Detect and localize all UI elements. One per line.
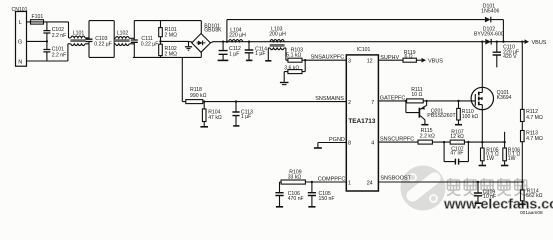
bridge rectifier BD101: [192, 21, 211, 58]
wire G row: [27, 40, 48, 42]
wire SNSMAINS riser: [182, 57, 186, 101]
svg-text:47 nF: 47 nF: [450, 151, 463, 157]
svg-text:SNSAUXPFC: SNSAUXPFC: [311, 55, 345, 61]
junction bypass: [226, 41, 228, 43]
svg-text:12 kΩ: 12 kΩ: [450, 134, 464, 140]
resistor R112: [521, 109, 525, 121]
capacitor C110: [493, 42, 501, 68]
inductor L103 (PFC choke primary): [270, 40, 285, 47]
svg-text:GBU8K: GBU8K: [204, 28, 222, 34]
node VBUS arrow: [525, 39, 530, 44]
capacitor C103: [86, 21, 93, 58]
connector CN101: [16, 12, 27, 67]
capacitor C105: [308, 182, 316, 206]
svg-text:L102: L102: [117, 30, 129, 36]
wire VBUS divider column: [521, 42, 523, 190]
junction bypass return: [502, 41, 504, 43]
svg-text:1 µF: 1 µF: [255, 51, 265, 57]
svg-text:47 kΩ: 47 kΩ: [208, 115, 222, 121]
junction C113: [235, 100, 237, 102]
wire bottom rail cell2: [133, 56, 202, 58]
svg-text:990 kΩ: 990 kΩ: [190, 93, 207, 99]
diode D102: [485, 39, 491, 45]
ground (R106): [501, 165, 508, 167]
ground (R114): [519, 203, 526, 205]
svg-text:562 kΩ: 562 kΩ: [526, 193, 543, 199]
svg-text:N: N: [18, 59, 22, 65]
svg-text:1N5406: 1N5406: [481, 9, 499, 15]
ground (aux winding): [265, 60, 271, 62]
svg-text:24: 24: [367, 180, 373, 186]
wire N row: [27, 44, 71, 61]
ground (PGND): [314, 147, 322, 149]
resistor R116 3.6k: [284, 60, 305, 82]
svg-text:SUPHV: SUPHV: [380, 55, 399, 61]
junction R106: [503, 141, 505, 143]
resistor R103: [288, 58, 346, 62]
svg-text:1 µF: 1 µF: [229, 52, 239, 58]
svg-text:2: 2: [348, 100, 351, 106]
resistor R119: [403, 58, 422, 62]
svg-text:2 MΩ: 2 MΩ: [165, 51, 178, 57]
wire GATEPFC pin 7: [378, 100, 471, 102]
junction drain on main bus: [481, 41, 483, 43]
capacitor C114: [245, 42, 254, 60]
ground (C106): [276, 206, 283, 208]
capacitor C112: [219, 42, 228, 60]
svg-text:PBSS5260T: PBSS5260T: [427, 113, 456, 119]
junction C107 right: [467, 141, 469, 143]
fuse F101: [31, 20, 44, 24]
ground (R116): [280, 83, 289, 85]
svg-text:10 Ω: 10 Ω: [411, 92, 422, 98]
capacitor C106: [275, 182, 283, 206]
junction C109: [477, 181, 479, 183]
svg-text:12: 12: [367, 58, 373, 64]
resistor R110: [457, 101, 461, 124]
svg-text:VBUS: VBUS: [532, 40, 547, 46]
ground (C105): [308, 206, 315, 208]
wire SNSBOOST pin 24: [378, 181, 522, 183]
wire COMPPFC pin 1: [305, 181, 346, 183]
junction emitter tap: [425, 100, 427, 102]
inductor L101 (common-mode choke): [70, 36, 89, 45]
watermark chinese characters 电子发烧友: [447, 178, 528, 196]
svg-text:F101: F101: [32, 14, 44, 20]
svg-text:200 µH: 200 µH: [269, 31, 286, 37]
svg-text:001aam08: 001aam08: [520, 210, 543, 216]
junction SNSAUXPFC node: [304, 59, 306, 61]
resistor R109: [280, 180, 306, 184]
svg-text:4: 4: [371, 141, 374, 147]
resistor R101: [159, 21, 163, 42]
junction SNSBOOST/divider: [521, 181, 523, 183]
svg-text:VBUS: VBUS: [428, 58, 443, 64]
junction column: [521, 41, 523, 43]
svg-text:G: G: [18, 40, 22, 46]
svg-text:1W: 1W: [486, 156, 494, 162]
inductor L104: [228, 40, 242, 42]
wire main bus: [210, 42, 527, 43]
svg-text:L101: L101: [73, 30, 85, 36]
ground (C113): [233, 125, 239, 127]
node VBUS (suphv arrow): [422, 58, 427, 63]
resistor R104: [202, 102, 206, 127]
svg-text:K3694: K3694: [497, 95, 512, 101]
wire bypass riser: [226, 20, 228, 42]
capacitor C109: [474, 182, 482, 203]
svg-text:BYV29X-600: BYV29X-600: [474, 32, 504, 38]
svg-text:4.7 MΩ: 4.7 MΩ: [526, 115, 543, 121]
svg-text:150 nF: 150 nF: [319, 196, 335, 202]
svg-text:100 kΩ: 100 kΩ: [462, 114, 479, 120]
junction C110: [496, 41, 498, 43]
wire PGND pin 8: [318, 143, 346, 148]
svg-text:33 kΩ: 33 kΩ: [288, 175, 302, 181]
ground (C112): [218, 59, 229, 61]
svg-text:2.2 nF: 2.2 nF: [52, 33, 67, 39]
diode D101: [485, 17, 491, 23]
wire SUPHV pin 12: [378, 59, 403, 61]
wire top bypass line: [227, 20, 504, 42]
junction C114: [248, 41, 250, 43]
junction C107 left: [443, 141, 445, 143]
inductor L103 auxiliary winding: [268, 48, 288, 60]
junction base tap: [405, 100, 407, 102]
capacitor C111: [131, 21, 138, 58]
svg-text:1: 1: [348, 180, 351, 186]
ground (C114): [246, 59, 253, 61]
watermark logo circle (elecfans): [401, 166, 446, 211]
svg-text:L: L: [19, 20, 22, 26]
resistor R106: [503, 142, 507, 165]
resistor R105: [481, 142, 485, 165]
svg-text:0.22 µF: 0.22 µF: [94, 42, 112, 48]
svg-text:10 nF: 10 nF: [483, 194, 496, 200]
junction source/R105: [481, 141, 483, 143]
svg-text:6 Ω: 6 Ω: [405, 54, 413, 60]
svg-text:220 µH: 220 µH: [229, 33, 246, 39]
svg-text:5.1 kΩ: 5.1 kΩ: [286, 52, 301, 58]
svg-text:420 V: 420 V: [503, 54, 517, 60]
wire SNSCURPFC pin 4: [378, 141, 504, 143]
wire L row: [27, 22, 71, 38]
svg-text:470 nF: 470 nF: [288, 196, 304, 202]
resistor R111: [407, 99, 424, 103]
resistor R118: [186, 100, 346, 104]
transistor Q201 PBSS5260T: [406, 101, 427, 124]
junction C105: [311, 181, 313, 183]
ground (C109): [475, 202, 482, 204]
junction R101/R102 midpoint: [159, 40, 161, 42]
capacitor C107: [444, 142, 468, 165]
svg-text:3.6 kΩ: 3.6 kΩ: [284, 65, 299, 71]
svg-text:TEA1713: TEA1713: [348, 118, 375, 125]
svg-text:4.7 MΩ: 4.7 MΩ: [526, 136, 543, 142]
svg-text:PGND: PGND: [329, 137, 345, 143]
wire C110 return stub: [504, 132, 506, 142]
junction R104: [203, 100, 205, 102]
ground (R105): [479, 165, 486, 167]
resistor R113: [521, 131, 525, 142]
svg-text:2.2 kΩ: 2.2 kΩ: [420, 134, 435, 140]
ground (Q201 collector): [421, 124, 428, 126]
wire midpoint to bridge DC minus: [161, 41, 192, 43]
svg-text:CN101: CN101: [12, 7, 28, 13]
svg-text:3: 3: [348, 58, 351, 64]
svg-text:1W: 1W: [508, 156, 516, 162]
capacitor C101: [43, 41, 50, 61]
inductor L102 (common-mode choke): [114, 37, 134, 46]
resistor R107: [450, 140, 464, 144]
svg-text:8: 8: [348, 141, 351, 147]
ground (R110): [455, 124, 462, 126]
svg-text:1 µF: 1 µF: [241, 114, 251, 120]
svg-text:IC101: IC101: [357, 47, 371, 53]
junction G/C102/C101: [46, 40, 48, 42]
wire bottom rail cell1: [89, 56, 114, 58]
resistor R114: [521, 190, 525, 204]
wire neck vertical: [113, 21, 115, 58]
wire top rail cell2: [134, 20, 201, 22]
svg-text:SNSMAINS: SNSMAINS: [315, 96, 344, 102]
op-amp/controller IC101 TEA1713 box: [346, 55, 378, 191]
svg-text:SNSCURPFC: SNSCURPFC: [380, 137, 414, 143]
svg-text:GATEPFC: GATEPFC: [380, 96, 406, 102]
capacitor C102: [43, 22, 50, 42]
svg-text:2 MΩ: 2 MΩ: [165, 33, 178, 39]
junction R110 tap: [457, 100, 459, 102]
junction C112: [222, 41, 224, 43]
ground (R104): [200, 126, 208, 128]
resistor R102: [159, 41, 163, 57]
svg-text:7: 7: [371, 100, 374, 106]
capacitor C113: [232, 102, 239, 126]
resistor R115: [418, 140, 432, 144]
earth ground: [185, 41, 192, 50]
svg-text:0.22 µF: 0.22 µF: [141, 42, 159, 48]
wire top rail cell1: [89, 20, 114, 22]
transistor Q101 K3694 MOSFET: [471, 42, 493, 142]
svg-text:SNSBOOST: SNSBOOST: [380, 175, 411, 181]
svg-text:2.2 nF: 2.2 nF: [52, 52, 67, 58]
svg-text:COMPPFC: COMPPFC: [318, 177, 346, 183]
